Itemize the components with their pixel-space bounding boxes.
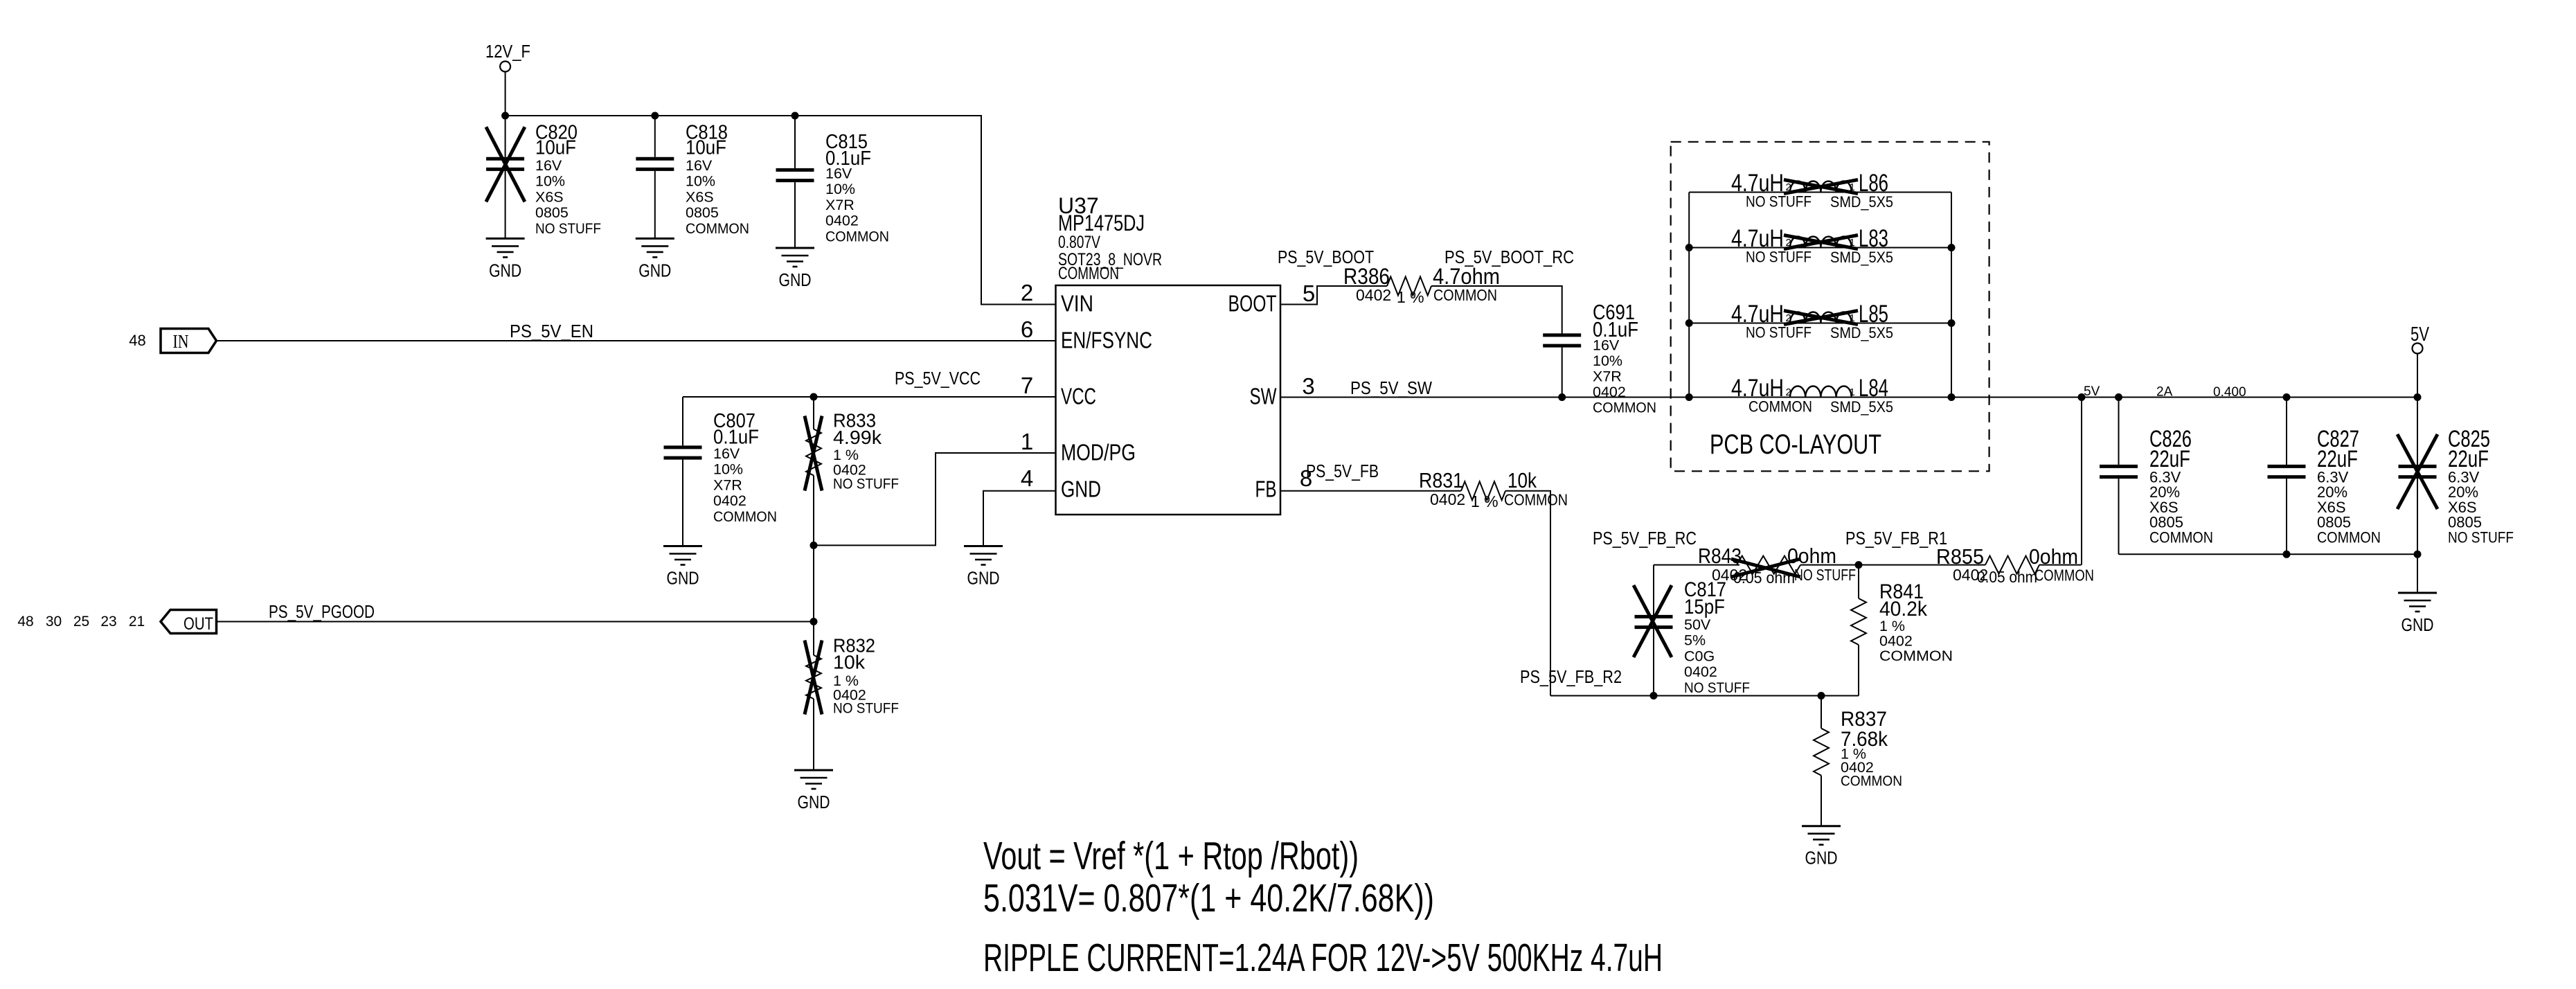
svg-text:PCB CO-LAYOUT: PCB CO-LAYOUT — [1710, 429, 1881, 460]
wire net PS_5V_VCC — [683, 396, 1056, 398]
annotation 0.400 — [2213, 385, 2246, 400]
svg-text:SMD_5X5: SMD_5X5 — [1830, 193, 1893, 211]
svg-text:R855: R855 — [1936, 544, 1984, 569]
net label PS_5V_FB — [1306, 461, 1379, 481]
ground below R837 — [1802, 826, 1841, 868]
wire R831 to feedback divider — [1505, 491, 1550, 696]
svg-text:4.99k: 4.99k — [833, 427, 882, 448]
svg-text:GND: GND — [638, 260, 671, 280]
power terminal 12V_F — [485, 41, 530, 116]
capacitor C820 10uF (NO STUFF, crossed out) — [486, 116, 601, 238]
svg-text:16V: 16V — [686, 157, 713, 174]
ground below C820 — [486, 238, 525, 280]
note: Vout formula — [983, 834, 1359, 878]
svg-text:IN: IN — [173, 331, 189, 352]
svg-text:5V: 5V — [2084, 384, 2100, 399]
svg-text:COMMON: COMMON — [686, 220, 749, 237]
svg-text:21: 21 — [129, 614, 145, 630]
svg-text:4.7ohm: 4.7ohm — [1433, 264, 1500, 289]
svg-text:12V_F: 12V_F — [485, 41, 530, 62]
svg-text:COMMON: COMMON — [1593, 400, 1656, 416]
svg-text:1 %: 1 % — [1397, 288, 1424, 306]
resistor R831 10k — [1419, 468, 1568, 510]
svg-text:2: 2 — [1021, 280, 1033, 305]
wire net PS_5V_SW / 5V rail — [1280, 397, 2417, 398]
svg-text:OUT: OUT — [184, 614, 213, 634]
svg-text:COMMON: COMMON — [2034, 567, 2094, 585]
ground below R832 — [794, 770, 833, 812]
svg-text:RIPPLE CURRENT=1.24A FOR 12V->: RIPPLE CURRENT=1.24A FOR 12V->5V 500KHz … — [983, 936, 1663, 980]
svg-text:GND: GND — [798, 792, 830, 812]
svg-text:R843: R843 — [1698, 544, 1742, 568]
svg-text:5V: 5V — [2410, 323, 2429, 346]
svg-text:0805: 0805 — [535, 204, 569, 221]
wire net PS_5V_EN — [217, 340, 1056, 341]
svg-text:0402: 0402 — [1356, 286, 1391, 304]
inductor L86 4.7uH (NO STUFF, crossed out) — [1689, 170, 1951, 211]
junction PS_5V_FB_R1 node — [1855, 561, 1863, 569]
svg-text:FB: FB — [1255, 476, 1277, 502]
ground below C815 — [776, 248, 814, 290]
svg-text:SMD_5X5: SMD_5X5 — [1830, 249, 1893, 266]
resistor R855 0ohm — [1936, 544, 2094, 586]
svg-text:0.807V: 0.807V — [1058, 233, 1100, 252]
svg-text:Vout = Vref *(1 + Rtop /Rbo: Vout = Vref *(1 + Rtop /Rbot)) — [983, 834, 1359, 878]
wire net PS_5V_FB_RC row — [1654, 564, 1739, 566]
svg-text:10%: 10% — [825, 181, 855, 197]
svg-text:X6S: X6S — [535, 188, 564, 205]
junction 12V bus / C818 — [651, 112, 659, 120]
svg-text:NO STUFF: NO STUFF — [833, 476, 899, 492]
junction right bus / L84 — [1948, 393, 1956, 401]
wire net PS_5V_FB — [1280, 490, 1462, 492]
PCB CO-LAYOUT dashed outline — [1671, 142, 1989, 472]
svg-text:R831: R831 — [1419, 468, 1463, 492]
junction 5V rail / C827 — [2283, 393, 2291, 401]
svg-text:NO STUFF: NO STUFF — [833, 700, 899, 717]
wire 5V rail down to feedback divider — [2081, 398, 2082, 565]
pin 7 VCC — [1021, 373, 1096, 409]
svg-text:PS_5V_FB_RC: PS_5V_FB_RC — [1593, 528, 1697, 549]
pin 2 VIN — [1021, 280, 1093, 317]
svg-text:PS_5V_FB_R1: PS_5V_FB_R1 — [1845, 528, 1947, 549]
junction right bus / L83 — [1948, 244, 1956, 251]
resistor R386 4.7ohm — [1343, 264, 1500, 306]
svg-text:16V: 16V — [1593, 337, 1620, 354]
svg-text:0402: 0402 — [713, 492, 746, 509]
svg-text:10uF: 10uF — [535, 137, 576, 159]
svg-text:1 %: 1 % — [1879, 618, 1905, 634]
svg-text:SMD_5X5: SMD_5X5 — [1830, 324, 1893, 341]
net label PS_5V_SW — [1350, 377, 1432, 398]
net label PS_5V_PGOOD — [269, 601, 375, 622]
svg-text:0402: 0402 — [1430, 490, 1465, 508]
svg-text:X7R: X7R — [713, 476, 742, 493]
wire R843 to R855 — [1800, 564, 1985, 566]
svg-text:7: 7 — [1021, 373, 1033, 398]
svg-text:X7R: X7R — [825, 197, 855, 213]
svg-text:30: 30 — [46, 614, 62, 630]
svg-text:0402: 0402 — [1879, 633, 1913, 650]
svg-text:5.031V= 0.807*(1 + 40.2K/7.6: 5.031V= 0.807*(1 + 40.2K/7.68K)) — [983, 876, 1434, 920]
svg-text:0.05 ohm: 0.05 ohm — [1977, 568, 2037, 586]
svg-text:X7R: X7R — [1593, 368, 1622, 385]
wire net PS_5V_FB_R2 row — [1550, 695, 1859, 697]
junction 12V bus / C815 — [791, 112, 799, 120]
wire net PS_5V_BOOT_RC — [1431, 286, 1562, 333]
svg-text:PS_5V_FB_R2: PS_5V_FB_R2 — [1520, 666, 1622, 687]
svg-text:COMMON: COMMON — [825, 228, 889, 244]
svg-text:1: 1 — [1850, 386, 1855, 398]
svg-text:16V: 16V — [713, 445, 740, 462]
port IN (input, sheet 48) — [129, 329, 216, 353]
svg-text:10k: 10k — [833, 652, 866, 673]
svg-text:48: 48 — [17, 614, 33, 630]
svg-text:0402: 0402 — [1684, 663, 1717, 680]
junction 5V rail / C826 — [2115, 393, 2122, 401]
wire net PS_5V_PGOOD — [217, 621, 814, 623]
svg-text:2: 2 — [1786, 386, 1791, 398]
pin 1 MOD/PG — [1021, 429, 1136, 465]
svg-text:PS_5V_EN: PS_5V_EN — [510, 321, 593, 341]
svg-text:10%: 10% — [1593, 353, 1622, 369]
svg-text:COMMON: COMMON — [713, 508, 777, 525]
junction right bus / L85 — [1948, 319, 1956, 327]
svg-text:1: 1 — [1850, 237, 1855, 249]
svg-text:SW: SW — [1250, 384, 1278, 409]
svg-text:5%: 5% — [1684, 632, 1706, 649]
svg-text:BOOT: BOOT — [1228, 291, 1277, 317]
junction VCC / R833 — [810, 393, 818, 401]
resistor R841 40.2k — [1851, 565, 1953, 696]
svg-text:COMMON: COMMON — [1504, 491, 1568, 509]
svg-text:COMMON: COMMON — [1433, 286, 1497, 304]
svg-text:1: 1 — [1021, 429, 1033, 454]
svg-text:10uF: 10uF — [686, 137, 726, 159]
pin 3 SW — [1250, 373, 1315, 409]
svg-text:1 %: 1 % — [833, 447, 859, 463]
junction ground bus / C825 — [2414, 551, 2422, 558]
svg-text:COMMON: COMMON — [1841, 773, 1902, 790]
net label PS_5V_FB_R2 — [1520, 666, 1622, 687]
svg-text:R386: R386 — [1343, 264, 1390, 289]
svg-text:C0G: C0G — [1684, 648, 1715, 664]
wire C825 to ground — [2417, 554, 2418, 593]
svg-text:NO STUFF: NO STUFF — [1684, 679, 1750, 696]
junction PGOOD / R832 — [810, 618, 818, 625]
capacitor C691 0.1uF — [1543, 300, 1656, 416]
svg-text:NO STUFF: NO STUFF — [2448, 528, 2514, 546]
net label PS_5V_EN — [510, 321, 593, 341]
capacitor C817 15pF (NO STUFF, crossed out) — [1634, 565, 1750, 696]
svg-text:COMMON: COMMON — [2317, 528, 2381, 546]
svg-text:VCC: VCC — [1061, 384, 1096, 409]
wire to pin MOD/PG — [814, 453, 1056, 545]
svg-text:0402: 0402 — [825, 213, 859, 229]
svg-text:15pF: 15pF — [1684, 596, 1725, 618]
svg-text:GND: GND — [967, 568, 1000, 589]
svg-text:0.05 ohm: 0.05 ohm — [1733, 569, 1795, 587]
pin 8 FB — [1255, 465, 1313, 502]
svg-text:GND: GND — [2401, 614, 2434, 635]
junction left bus / L83 — [1685, 244, 1693, 251]
svg-text:16V: 16V — [825, 166, 852, 182]
svg-text:6: 6 — [1021, 317, 1033, 342]
svg-text:1: 1 — [1850, 312, 1855, 324]
pin 6 EN/FSYNC — [1021, 317, 1152, 353]
junction 5V rail / feedback tap — [2078, 393, 2086, 401]
note: ripple current — [983, 936, 1663, 980]
svg-text:VIN: VIN — [1061, 291, 1093, 317]
ground below output capacitors — [2398, 593, 2437, 635]
net label PS_5V_FB_RC — [1593, 528, 1697, 549]
capacitor C826 22uF — [2100, 398, 2213, 555]
inductor L84 4.7uH (COMMON, stuffed) — [1689, 375, 1951, 416]
svg-text:2: 2 — [1786, 312, 1791, 324]
svg-text:0805: 0805 — [686, 204, 719, 221]
junction R833 / MOD-PG wire — [810, 542, 818, 549]
svg-text:GND: GND — [489, 260, 521, 280]
net label PS_5V_VCC — [895, 368, 981, 389]
net label PS_5V_FB_R1 — [1845, 528, 1947, 549]
svg-text:5: 5 — [1303, 280, 1315, 306]
net label PS_5V_BOOT_RC — [1444, 247, 1574, 267]
junction R2 row / C817 — [1650, 692, 1658, 700]
wire output ground bus — [2119, 553, 2418, 555]
svg-text:4: 4 — [1021, 465, 1033, 491]
svg-text:NO STUFF: NO STUFF — [1746, 249, 1812, 266]
wire inductor array left bus — [1688, 193, 1690, 398]
IC U37 MP1475DJ body — [1056, 193, 1281, 515]
capacitor C815 0.1uF — [776, 116, 890, 248]
resistor R837 7.68k — [1814, 696, 1902, 826]
svg-text:COMMON: COMMON — [1058, 264, 1119, 283]
inductor L83 4.7uH (NO STUFF, crossed out) — [1689, 225, 1951, 266]
junction 12V bus / C820 — [501, 112, 509, 120]
svg-text:48: 48 — [129, 332, 145, 349]
svg-text:NO STUFF: NO STUFF — [1794, 566, 1856, 584]
note: numeric Vout calculation — [983, 876, 1434, 920]
wire net PS_5V_BOOT — [1280, 286, 1388, 305]
junction left bus / L85 — [1685, 319, 1693, 327]
resistor R833 4.99k (NO STUFF, crossed out) — [805, 397, 899, 545]
capacitor C825 22uF (NO STUFF, crossed out) — [2397, 398, 2514, 555]
svg-text:GND: GND — [1061, 476, 1101, 502]
svg-text:16V: 16V — [535, 157, 562, 174]
junction C691 / SW — [1558, 393, 1566, 401]
svg-text:PS_5V_FB: PS_5V_FB — [1306, 461, 1379, 481]
ground below C818 — [636, 238, 674, 280]
capacitor C807 0.1uF — [664, 397, 778, 546]
svg-text:PS_5V_PGOOD: PS_5V_PGOOD — [269, 601, 375, 622]
resistor R843 0ohm (NO STUFF, crossed out) — [1698, 544, 1856, 587]
svg-text:2A: 2A — [2156, 385, 2173, 400]
svg-text:PS_5V_SW: PS_5V_SW — [1350, 377, 1432, 398]
junction R2 row / R837 — [1818, 692, 1825, 700]
svg-text:MP1475DJ: MP1475DJ — [1058, 211, 1145, 235]
net label PS_5V_BOOT — [1278, 247, 1374, 267]
wire 12V_F bus to VIN — [506, 116, 1056, 305]
svg-text:10%: 10% — [535, 173, 565, 190]
svg-text:COMMON: COMMON — [2149, 528, 2213, 546]
svg-text:MOD/PG: MOD/PG — [1061, 440, 1136, 465]
pin 5 BOOT — [1228, 280, 1316, 317]
current annotation 2A — [2156, 385, 2173, 400]
svg-text:NO STUFF: NO STUFF — [535, 220, 601, 237]
svg-text:PS_5V_BOOT_RC: PS_5V_BOOT_RC — [1444, 247, 1574, 267]
junction 5V rail / C825 — [2414, 393, 2422, 401]
wire R833 to PGOOD — [813, 545, 814, 621]
svg-text:X6S: X6S — [686, 188, 714, 205]
pin 4 GND — [1021, 465, 1101, 502]
svg-text:NO STUFF: NO STUFF — [1746, 324, 1812, 341]
junction ground bus / C827 — [2283, 551, 2291, 558]
svg-text:10%: 10% — [713, 461, 743, 478]
svg-text:23: 23 — [100, 614, 116, 630]
ground below C807 — [663, 546, 702, 589]
svg-text:COMMON: COMMON — [1748, 398, 1812, 416]
svg-text:EN/FSYNC: EN/FSYNC — [1061, 328, 1152, 353]
inductor L85 4.7uH (NO STUFF, crossed out) — [1689, 301, 1951, 341]
wire inductor array right bus — [1951, 193, 1952, 398]
svg-text:SMD_5X5: SMD_5X5 — [1830, 398, 1893, 416]
svg-text:1 %: 1 % — [1471, 492, 1499, 510]
svg-text:1: 1 — [1850, 181, 1855, 193]
svg-text:2: 2 — [1786, 237, 1791, 249]
svg-text:GND: GND — [1805, 848, 1838, 868]
wire pin 4 GND stub — [983, 491, 1056, 546]
svg-text:0.400: 0.400 — [2213, 385, 2246, 400]
svg-text:NO STUFF: NO STUFF — [1746, 193, 1812, 211]
svg-text:3: 3 — [1302, 373, 1314, 399]
capacitor C827 22uF — [2268, 398, 2381, 555]
svg-text:PS_5V_VCC: PS_5V_VCC — [895, 368, 981, 389]
wire R855 to 5V rail — [2039, 564, 2082, 566]
power terminal 5V — [2410, 323, 2429, 398]
svg-text:10%: 10% — [686, 173, 715, 190]
svg-text:50V: 50V — [1684, 616, 1711, 633]
svg-text:GND: GND — [779, 269, 812, 290]
svg-text:COMMON: COMMON — [1879, 648, 1953, 664]
svg-text:10k: 10k — [1508, 468, 1537, 492]
port OUT (PGOOD, sheets 48 30 25 23 21) — [17, 610, 216, 634]
resistor R832 10k (NO STUFF, crossed out) — [805, 622, 899, 771]
svg-text:GND: GND — [667, 568, 699, 589]
ground below U37 pin 4 — [964, 546, 1003, 589]
junction left bus / L84 — [1685, 393, 1693, 401]
net label 5V (rail) — [2084, 384, 2100, 399]
capacitor C818 10uF — [636, 116, 749, 238]
svg-text:25: 25 — [73, 614, 89, 630]
svg-text:2: 2 — [1786, 181, 1791, 193]
